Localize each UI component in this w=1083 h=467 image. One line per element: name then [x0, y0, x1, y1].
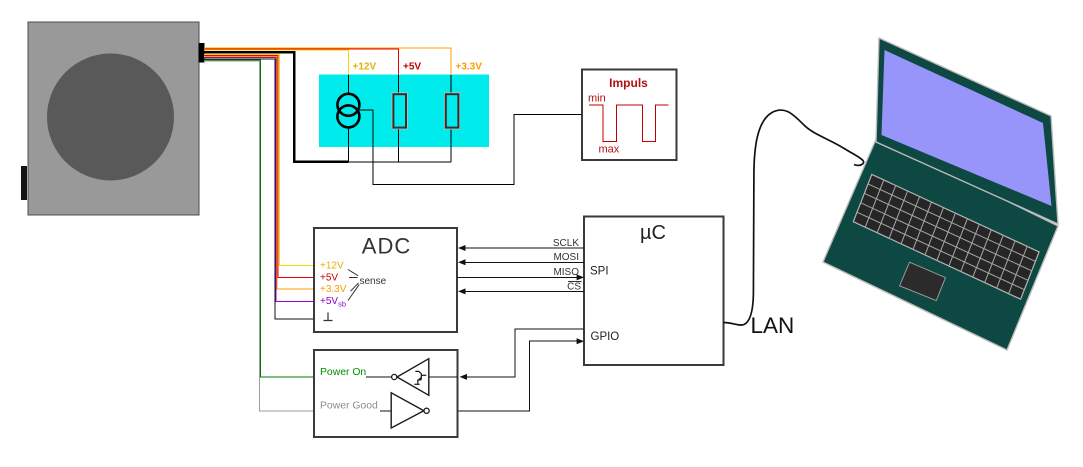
svg-text:MISO: MISO — [553, 267, 579, 278]
waveform pulse — [589, 105, 669, 142]
resistor load R2 (+3.3V) — [445, 93, 460, 129]
wire green Power On — [204, 60, 317, 377]
svg-text:Power On: Power On — [320, 367, 366, 378]
uC box — [584, 217, 723, 366]
svg-text:+5V: +5V — [403, 62, 421, 73]
wire buffer input — [380, 410, 391, 412]
buffer bubble — [424, 408, 429, 413]
sense tick from +3.3V — [351, 283, 359, 291]
wire gray Power Good — [204, 61, 317, 411]
wire yellow to +12V load — [204, 50, 348, 75]
Schmitt inverter U2 — [397, 359, 429, 396]
Schmitt bubble — [392, 374, 397, 379]
wire current source output to Impuls — [357, 110, 582, 185]
svg-text:Impuls: Impuls — [609, 76, 648, 90]
svg-text:+5V: +5V — [320, 272, 338, 283]
Schmitt hysteresis mark — [414, 371, 426, 384]
box Impuls — [582, 70, 677, 161]
wire MISO — [457, 276, 581, 278]
wire red sense +5V to ADC — [204, 56, 316, 278]
wire +3.3V inside board — [450, 75, 452, 162]
svg-text:CS: CS — [567, 282, 581, 293]
wire Schmitt input from uC side — [429, 376, 458, 378]
wire +12V inside board — [347, 75, 349, 94]
sense tick from +5Vsb — [348, 285, 359, 301]
Power box — [314, 350, 458, 437]
svg-text:Power Good: Power Good — [320, 401, 378, 412]
PSU cable connector — [199, 43, 205, 63]
wire into Schmitt bubble — [366, 376, 392, 378]
buffer U3 — [391, 393, 424, 428]
svg-text:LAN: LAN — [751, 313, 795, 338]
svg-text:+12V: +12V — [353, 62, 377, 73]
wire yellow sense +12V to ADC — [204, 54, 316, 265]
resistor load R1 (+5V) — [392, 93, 407, 129]
PSU body — [28, 22, 199, 215]
svg-text:SCLK: SCLK — [553, 238, 579, 249]
wire orange to +3.3V load — [204, 48, 451, 75]
wire ground thick black — [204, 52, 348, 162]
svg-text:max: max — [599, 143, 620, 155]
wire SCLK — [461, 247, 584, 249]
sense tick from +5V — [349, 277, 358, 279]
wire black ground sense to ADC — [204, 59, 316, 319]
svg-text:sense: sense — [360, 276, 387, 287]
wire orange sense +3.3V to ADC — [204, 57, 316, 290]
wire MOSI — [461, 261, 584, 263]
load board cyan — [319, 75, 489, 148]
wire Power Good to GPIO — [429, 341, 581, 411]
PSU power switch — [21, 166, 27, 200]
PSU fan — [47, 54, 174, 181]
svg-text:ADC: ADC — [362, 234, 411, 259]
wire ground bus thin — [348, 127, 451, 162]
wire red to +5V load — [204, 49, 398, 75]
laptop lid — [876, 38, 1058, 224]
svg-text:+3.3V: +3.3V — [320, 284, 347, 295]
wire GPIO to Power On — [461, 329, 584, 377]
svg-text:+12V: +12V — [320, 260, 344, 271]
wire +5V inside board — [397, 75, 399, 162]
wire CS — [461, 290, 584, 292]
laptop touchpad — [900, 262, 946, 300]
svg-text:min: min — [588, 93, 606, 105]
svg-text:GPIO: GPIO — [591, 331, 620, 343]
laptop keyboard — [853, 174, 1039, 299]
laptop base — [823, 137, 1058, 350]
laptop screen — [882, 50, 1052, 206]
ADC box — [314, 228, 457, 332]
sense tick from +12V — [348, 270, 358, 276]
svg-text:µC: µC — [640, 222, 666, 244]
svg-text:SPI: SPI — [590, 265, 609, 277]
svg-text:+3.3V: +3.3V — [456, 62, 483, 73]
LAN cable — [724, 110, 864, 325]
ground symbol in ADC — [324, 313, 333, 321]
wire purple +5Vsb to ADC — [204, 58, 316, 302]
svg-text:MOSI: MOSI — [553, 252, 579, 263]
current source I1 — [337, 94, 359, 128]
